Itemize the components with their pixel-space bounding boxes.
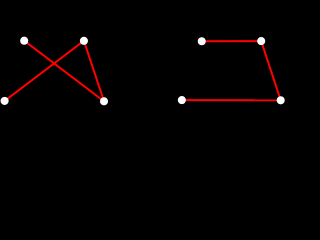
wire edge B-D — [84, 41, 104, 101]
wire edge F-H — [261, 41, 281, 100]
node E — [198, 37, 206, 45]
node D — [100, 97, 108, 105]
wire edge G-H — [182, 99, 281, 101]
wire edge A-D — [24, 41, 104, 102]
node H — [277, 96, 285, 104]
wire edge E-F — [202, 40, 261, 42]
node C — [1, 97, 9, 105]
node A — [20, 37, 28, 45]
node F — [257, 37, 265, 45]
wire edge B-C — [5, 41, 84, 101]
node B — [80, 37, 88, 45]
node G — [178, 96, 186, 104]
